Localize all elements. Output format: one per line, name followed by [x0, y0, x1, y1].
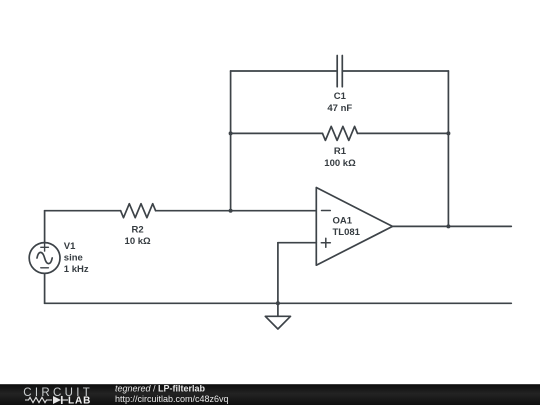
svg-text:LAB: LAB	[68, 396, 91, 405]
wire R1 branch right	[358, 132, 449, 134]
source V1 circle	[29, 243, 60, 274]
source V1 plus sign	[41, 244, 49, 252]
junction node feedback/R1 left	[229, 131, 233, 135]
op-amp OA1 inverting input minus sign	[322, 210, 331, 212]
resistor R1 zigzag	[323, 126, 358, 140]
wire C1 branch right	[343, 70, 448, 72]
wire op-amp output	[393, 225, 512, 227]
svg-text:1 kHz: 1 kHz	[64, 264, 89, 275]
svg-text:V1: V1	[64, 241, 76, 252]
svg-text:tegnered / LP-filterlab: tegnered / LP-filterlab	[115, 383, 206, 393]
wire C1 branch left	[231, 70, 337, 72]
svg-text:C1: C1	[334, 91, 347, 102]
junction node output/feedback	[446, 224, 450, 228]
svg-text:OA1: OA1	[333, 216, 353, 227]
source V1 minus sign	[41, 267, 49, 269]
logo resistor zigzag	[25, 397, 52, 402]
wire V1 top lead	[44, 211, 46, 243]
junction node ground/bottom rail	[276, 301, 280, 305]
svg-text:TL081: TL081	[333, 227, 361, 238]
svg-text:http://circuitlab.com/c48z6vq: http://circuitlab.com/c48z6vq	[115, 394, 229, 404]
op-amp OA1 triangle	[316, 188, 392, 266]
junction node feedback/R1 right	[446, 131, 450, 135]
wire non-inverting input vertical to bottom rail	[277, 243, 279, 304]
resistor R2 zigzag	[121, 204, 156, 218]
svg-text:10 kΩ: 10 kΩ	[125, 236, 151, 247]
wire feedback right vertical	[447, 71, 449, 226]
ground symbol triangle	[265, 316, 290, 329]
wire feedback left vertical	[230, 71, 232, 211]
svg-text:R2: R2	[132, 224, 144, 235]
wire non-inverting input horizontal	[278, 242, 316, 244]
op-amp OA1 non-inverting input plus sign	[321, 238, 330, 247]
wire bottom rail	[45, 302, 512, 304]
wire ground stub	[277, 303, 279, 316]
junction node feedback/R2 input	[229, 209, 233, 213]
logo diode symbol	[53, 396, 68, 404]
svg-text:sine: sine	[64, 253, 83, 264]
svg-text:47 nF: 47 nF	[327, 103, 352, 114]
svg-text:R1: R1	[334, 146, 347, 157]
footer bar	[0, 384, 540, 405]
capacitor C1 plates	[337, 56, 342, 87]
svg-text:100 kΩ: 100 kΩ	[324, 158, 356, 169]
wire V1 bottom lead	[44, 273, 46, 303]
wire R2 to op-amp inverting input	[156, 210, 317, 212]
source V1 sine wave	[37, 252, 52, 263]
wire R1 branch left	[231, 132, 323, 134]
wire R2 branch left	[45, 210, 121, 212]
